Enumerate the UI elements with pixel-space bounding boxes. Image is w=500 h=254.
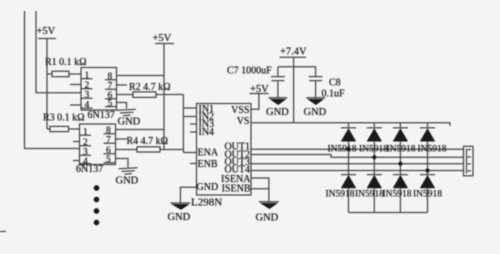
capacitor C8 0.1uF [309, 67, 345, 100]
svg-text:R3 0.1 kΩ: R3 0.1 kΩ [43, 113, 85, 124]
svg-text:+7.4V: +7.4V [280, 47, 307, 58]
wire U1 pin8 to +5V rail [117, 75, 165, 77]
opto-coupler U2 6N137 [76, 124, 116, 175]
svg-text:IN5918: IN5918 [418, 145, 447, 155]
svg-text:GND: GND [304, 107, 327, 118]
svg-text:ENA: ENA [198, 147, 219, 158]
wire IN4 stub [190, 131, 197, 133]
svg-text:GND: GND [168, 212, 191, 223]
svg-text:1: 1 [85, 71, 90, 81]
ground chip [168, 203, 191, 223]
diode D2 IN5918 top [367, 123, 382, 174]
svg-text:L298N: L298N [191, 197, 222, 209]
wire OUT3 [251, 163, 464, 165]
diode D8 IN5918 bottom [420, 175, 435, 213]
svg-text:5: 5 [108, 99, 113, 109]
op-to coupler U1 6N137 [81, 68, 117, 122]
diode D5 IN5918 bottom [341, 175, 356, 213]
svg-text:R4 4.7 kΩ: R4 4.7 kΩ [127, 136, 169, 147]
left edge mark [0, 231, 6, 233]
svg-text:+5V: +5V [153, 33, 172, 44]
resistor R1 0.1k [45, 57, 87, 77]
wire bottom bus [349, 212, 428, 214]
wire VS bus to diodes [251, 123, 450, 126]
wire OUT1 [251, 148, 464, 150]
wire U2 pin2 stub [73, 141, 80, 143]
wire U2 pin5 to ground [116, 159, 129, 168]
svg-text:4: 4 [85, 100, 90, 110]
svg-text:GND: GND [266, 107, 289, 118]
ground C7 [266, 98, 289, 118]
driver chip U3 L298N [191, 104, 251, 209]
wire VSS to +5V [251, 94, 259, 110]
wire U2 pin7 stub [116, 138, 128, 140]
svg-text:IN5918: IN5918 [387, 145, 416, 155]
svg-text:IN5918: IN5918 [359, 145, 388, 155]
wire capacitor junction [278, 66, 316, 68]
connector J1 [464, 146, 474, 176]
wire to ENA [183, 152, 196, 154]
node OUT4-D junction [426, 169, 430, 173]
wire U1 pin5 to ground [117, 103, 127, 109]
wire node column to chip inputs [182, 95, 184, 153]
svg-text:VS: VS [237, 116, 250, 127]
node OUT1-D junction [347, 147, 351, 151]
svg-text:IN5918: IN5918 [383, 190, 412, 200]
wire OUT2 [251, 155, 464, 158]
svg-text:R1 0.1 kΩ: R1 0.1 kΩ [45, 57, 87, 68]
diode D4 IN5918 top [420, 123, 435, 174]
svg-text:IN5918: IN5918 [328, 145, 357, 155]
resistor R2 4.7k [117, 82, 184, 97]
ground U1 [117, 109, 141, 127]
svg-text:C7 1000uF: C7 1000uF [227, 66, 272, 77]
svg-text:6N137: 6N137 [88, 110, 115, 121]
capacitor C7 1000uF [227, 66, 285, 98]
svg-text:GND: GND [118, 117, 141, 128]
ground ISEN [256, 202, 279, 224]
wire ENB stub [190, 163, 197, 165]
svg-text:C8: C8 [329, 78, 341, 89]
svg-text:IN5918: IN5918 [355, 190, 384, 200]
resistor R3 0.1k [43, 113, 85, 132]
svg-text:GND: GND [256, 213, 279, 224]
wire chip GND [180, 187, 196, 202]
svg-text:IN5918: IN5918 [326, 190, 355, 200]
wire to IN2 [183, 116, 196, 118]
wire U1 pin7 stub [117, 84, 128, 86]
wire input line B [36, 11, 81, 93]
svg-text:ENB: ENB [198, 159, 218, 170]
wire U2 pin4 stub [73, 160, 80, 162]
svg-text:IN5918: IN5918 [413, 190, 442, 200]
resistor R4 4.7k [116, 136, 184, 152]
wire U1 pin4 stub [70, 104, 81, 106]
wire U1 pin2 stub [70, 84, 81, 86]
wire OUT4 [251, 170, 464, 172]
node OUT3-D junction [399, 162, 403, 166]
ground C8 [304, 98, 327, 118]
svg-text:GND: GND [197, 182, 219, 193]
wire to IN1 [183, 107, 196, 109]
svg-text:IN4: IN4 [199, 127, 215, 138]
svg-text:6N137: 6N137 [76, 164, 103, 175]
wire ISENB [251, 188, 269, 190]
diode D3 IN5918 top [393, 123, 408, 174]
diode D7 IN5918 bottom [393, 175, 408, 213]
wire ISENA [251, 178, 269, 202]
power +5V right [250, 84, 270, 95]
ellipsis dots [94, 185, 99, 225]
power +5V left [37, 26, 57, 129]
power +5V mid [153, 33, 175, 150]
wire IN3 stub [190, 123, 197, 125]
svg-text:ISENB: ISENB [222, 183, 251, 194]
wire U2 pin8 to +5V rail [116, 129, 165, 131]
ground U2 [116, 168, 139, 187]
node OUT2-D junction [372, 155, 376, 159]
wire input line A [25, 11, 80, 149]
diode D1 IN5918 top [341, 123, 356, 174]
svg-text:VSS: VSS [231, 105, 249, 116]
svg-text:GND: GND [116, 176, 139, 187]
diode D6 IN5918 bottom [367, 175, 382, 213]
power +7.4V [280, 47, 308, 123]
svg-text:+5V: +5V [37, 26, 56, 37]
